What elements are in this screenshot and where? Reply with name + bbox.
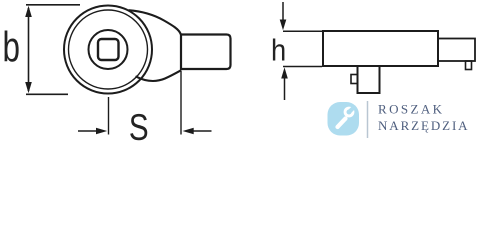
dim S arrow left bbox=[78, 130, 98, 132]
outer circle bbox=[64, 6, 152, 94]
dim b extension bottom bbox=[26, 93, 68, 95]
logo icon squircle bbox=[328, 102, 360, 136]
dim b arrow up bbox=[25, 6, 32, 17]
svg-text:b: b bbox=[3, 23, 20, 71]
side view detent pin bbox=[351, 75, 358, 84]
neck bottom edge bbox=[136, 70, 182, 81]
dim S extension left bbox=[108, 97, 110, 135]
medium circle bbox=[89, 30, 128, 69]
svg-text:ROSZAK: ROSZAK bbox=[378, 102, 444, 117]
tang rectangle bbox=[181, 35, 231, 70]
side view body bbox=[323, 31, 438, 66]
svg-text:NARZĘDZIA: NARZĘDZIA bbox=[378, 118, 469, 133]
dim h arrow down bbox=[280, 20, 287, 31]
square drive opening bbox=[98, 39, 119, 60]
svg-text:S: S bbox=[129, 108, 149, 149]
svg-text:h: h bbox=[271, 34, 286, 68]
dim h extension bottom bbox=[283, 66, 322, 68]
dim S arrow right bbox=[191, 130, 212, 132]
side view square drive bbox=[358, 66, 380, 93]
dim b line bbox=[28, 8, 30, 91]
dim S extension right bbox=[180, 71, 182, 135]
dim h arrow up bbox=[281, 67, 288, 78]
side view tongue bbox=[438, 39, 475, 62]
logo wrench bbox=[338, 105, 357, 127]
side view nub bbox=[466, 61, 472, 70]
neck top edge bbox=[129, 10, 181, 34]
ring circle bbox=[69, 10, 148, 89]
logo divider bbox=[367, 101, 369, 138]
dim h line top bbox=[282, 2, 284, 21]
dim b arrow down bbox=[25, 82, 32, 93]
dim h line bottom bbox=[284, 78, 286, 100]
dim b extension top bbox=[26, 4, 80, 6]
dim h extension top bbox=[283, 30, 322, 32]
